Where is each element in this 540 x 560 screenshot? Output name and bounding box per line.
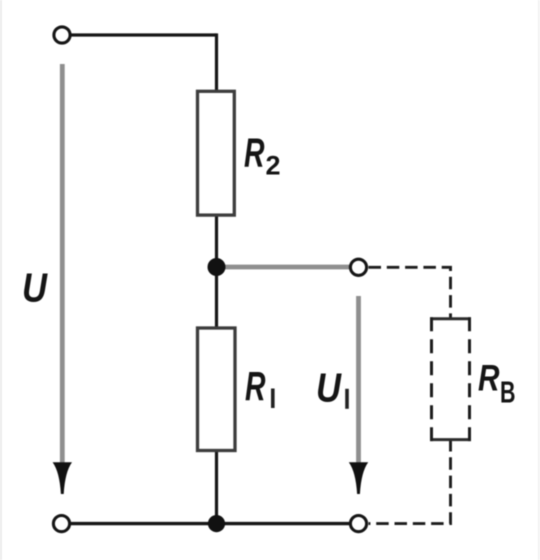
wire R2 to R1 through node (215, 214, 218, 329)
svg-text:R: R (245, 363, 266, 409)
label U1 (316, 365, 349, 411)
label U (22, 265, 48, 311)
wire dashed RB bottom to rail (369, 439, 451, 524)
wire top horizontal (71, 33, 217, 36)
resistor R2 (198, 91, 235, 215)
terminal top-left (54, 27, 70, 43)
voltage arrow U1 (shaft) (356, 296, 361, 463)
svg-text:2: 2 (266, 151, 281, 181)
wire top vertical into R2 (215, 33, 218, 92)
terminal bottom-left (53, 516, 69, 532)
label R1 (245, 363, 275, 409)
resistor R1 (198, 328, 236, 451)
node B (bottom rail junction) (208, 515, 225, 532)
svg-text:R: R (244, 130, 265, 176)
frame edge right (538, 0, 540, 560)
voltage arrow U (head) (53, 462, 72, 494)
svg-text:U: U (22, 265, 48, 311)
label RB (478, 358, 516, 410)
svg-text:R: R (478, 358, 500, 399)
svg-text:U: U (316, 365, 342, 411)
node A (junction R2/R1/tap) (208, 258, 226, 276)
voltage arrow U1 (head) (349, 462, 368, 494)
wire bottom rail (70, 522, 350, 525)
resistor RB (dashed, load) (430, 317, 471, 441)
label R2 (244, 130, 281, 181)
terminal mid-right (tap) (350, 259, 366, 275)
frame edge left (0, 0, 2, 560)
wire R1 to bottom rail (215, 450, 218, 525)
wire dashed tap to RB top (369, 267, 451, 319)
wire gray tap from node to terminal (217, 265, 351, 270)
svg-text:B: B (500, 375, 516, 410)
terminal bottom-right (350, 516, 366, 532)
voltage arrow U (shaft) (60, 64, 65, 463)
